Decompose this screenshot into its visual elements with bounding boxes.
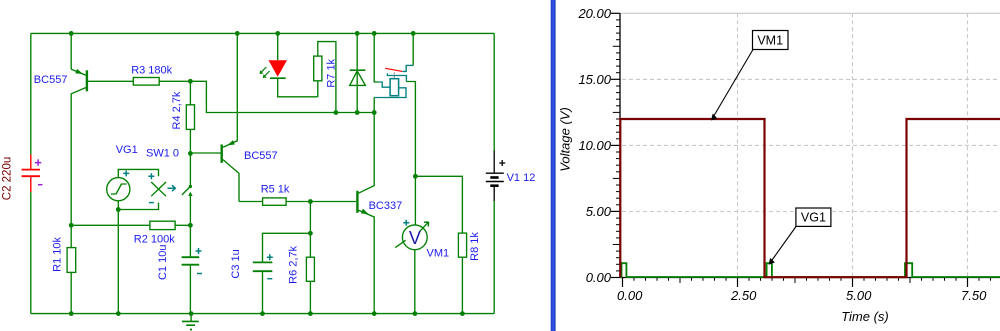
label box VM1 (711, 31, 788, 121)
resistor R1 (51, 225, 75, 313)
transistor Q1 BC557 (34, 33, 134, 225)
junction dot node R3/R4 (188, 79, 193, 84)
svg-text:V1 12: V1 12 (507, 172, 536, 184)
svg-text:0.00: 0.00 (586, 270, 612, 285)
junction dot R5 right (308, 199, 313, 204)
junction dot relay coil top rail (372, 31, 377, 36)
svg-text:Voltage (V): Voltage (V) (558, 107, 573, 172)
svg-text:VG1: VG1 (801, 211, 826, 225)
junction dot R7 bottom node (334, 110, 339, 115)
transistor Q3 BC337 (310, 113, 402, 314)
chart top border (620, 12, 1000, 14)
svg-text:15.00: 15.00 (578, 72, 611, 87)
svg-text:2.50: 2.50 (730, 288, 757, 303)
splitter bar (551, 0, 556, 331)
switch SW1 (146, 148, 193, 226)
svg-text:VG1: VG1 (116, 144, 138, 156)
svg-text:R2 100k: R2 100k (134, 234, 175, 246)
voltage generator VG1 (107, 144, 159, 210)
junction dot VM1 top (413, 174, 418, 179)
svg-text:BC557: BC557 (34, 74, 68, 86)
label box VG1 (769, 208, 831, 265)
x tick labels (617, 288, 987, 303)
y axis (619, 13, 621, 277)
relay U1 (374, 33, 415, 176)
junction dot diode bottom (355, 110, 360, 115)
svg-text:20.00: 20.00 (577, 6, 611, 21)
resistor R7 (314, 42, 338, 113)
junction dot R1 top (69, 223, 74, 228)
trace VG1 (620, 263, 1000, 277)
resistor R6 (288, 245, 315, 313)
svg-text:BC337: BC337 (369, 200, 403, 212)
svg-text:R8 1k: R8 1k (469, 232, 481, 261)
resistor R3 (131, 64, 190, 85)
svg-text:R5 1k: R5 1k (261, 183, 290, 195)
svg-text:5.00: 5.00 (846, 288, 872, 303)
battery V1 (486, 33, 536, 313)
svg-text:VM1: VM1 (427, 248, 450, 260)
resistor R4 (171, 81, 194, 153)
axis title Time (s) (841, 309, 889, 324)
wire bottom rail (31, 313, 494, 315)
svg-text:V: V (409, 228, 421, 248)
junction dot (69, 31, 74, 36)
svg-text:Time (s): Time (s) (841, 309, 889, 324)
junction dot R4/base/switch (188, 151, 193, 156)
trace VM1 (620, 119, 1000, 277)
x axis minor ticks (634, 278, 991, 284)
wire node to LED/diode row (190, 81, 374, 112)
x axis (620, 277, 1000, 279)
x axis major ticks (623, 278, 968, 288)
axis title Voltage (V) (558, 107, 573, 172)
capacitor C2 (2, 154, 43, 200)
voltmeter VM1 (395, 176, 449, 313)
wire left rail upper (to C2) (30, 33, 32, 154)
horizontal dashed gridlines (622, 79, 1000, 211)
wire VG1 bottom to ground rail (117, 210, 119, 314)
wire R5 node down (309, 202, 311, 258)
wire VM1 node to R8 (415, 176, 462, 233)
svg-text:R6 2,7k: R6 2,7k (288, 245, 300, 283)
svg-text:0.00: 0.00 (617, 288, 643, 303)
svg-text:5.00: 5.00 (586, 204, 612, 219)
junction dot C3 node (308, 231, 313, 236)
LED D1 (260, 33, 318, 96)
svg-text:R4 2,7k: R4 2,7k (171, 91, 183, 129)
resistor R8 (458, 232, 480, 314)
svg-text:R3 180k: R3 180k (131, 64, 172, 76)
resistor R5 (239, 183, 310, 205)
y axis minor ticks (613, 20, 620, 271)
junction dot R2 right (188, 223, 193, 228)
svg-text:R1 10k: R1 10k (51, 236, 63, 271)
junction dot relay contact top rail (411, 31, 416, 36)
junction dot relay/BC337 node (372, 110, 377, 115)
junction dot diode top (355, 31, 360, 36)
junction dot VG1 bottom (116, 207, 121, 212)
capacitor C3 (230, 233, 310, 313)
svg-text:10.00: 10.00 (578, 138, 611, 153)
junction dot LED top (275, 31, 280, 36)
wire top rail (31, 32, 494, 34)
switch control X mark (151, 182, 175, 196)
y axis major ticks (611, 13, 620, 277)
svg-text:BC557: BC557 (244, 150, 278, 162)
resistor R2 (71, 221, 190, 245)
svg-text:C2 220u: C2 220u (2, 157, 14, 200)
ground (182, 314, 199, 331)
junction dots bottom rail (69, 311, 465, 316)
transistor Q2 BC557 (190, 33, 277, 201)
svg-text:C3 1u: C3 1u (230, 249, 242, 278)
capacitor C1 (157, 225, 202, 313)
svg-text:SW1 0: SW1 0 (146, 148, 179, 160)
y tick labels (577, 6, 611, 285)
wire left rail lower (C2 to bottom) (30, 192, 32, 314)
svg-text:C1 10u: C1 10u (157, 245, 169, 280)
svg-text:7.50: 7.50 (961, 288, 987, 303)
junction dot top rail Q2 (235, 31, 240, 36)
svg-text:R7 1k: R7 1k (326, 58, 338, 87)
diode D2 (350, 33, 366, 112)
svg-text:VM1: VM1 (757, 34, 783, 48)
vertical dashed gridlines (738, 13, 968, 277)
